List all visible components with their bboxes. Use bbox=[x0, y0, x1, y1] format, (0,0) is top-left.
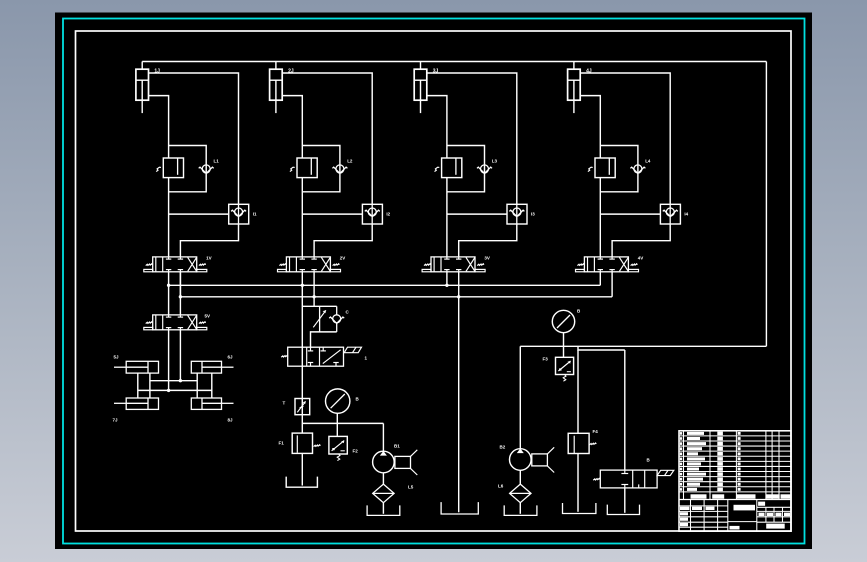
tank 5 bbox=[563, 503, 596, 514]
wire: branch main pressure line (col 2 continuation) bbox=[301, 285, 303, 433]
clamp cylinder 5J (top-left) bbox=[114, 361, 159, 373]
back-pressure valve F4 bbox=[568, 433, 596, 453]
wire: valve 3V port B to return bus bbox=[458, 272, 460, 297]
pilot relief valve F3 bbox=[556, 357, 574, 381]
wire: pump 1 outlet riser bbox=[382, 423, 384, 451]
wire: clamp manifold stem left-inner bbox=[149, 373, 151, 398]
wire: cylinder 4J cap port to top bus bbox=[573, 62, 575, 70]
clamp cylinder 6J (top-right) bbox=[191, 361, 233, 373]
wire: valve 4V port A to pressure bus bbox=[599, 272, 601, 286]
hydraulic cylinder 3J bbox=[414, 69, 427, 113]
wire: valve 1V port A to pressure bus bbox=[168, 272, 170, 286]
tank 4 bbox=[504, 505, 537, 515]
wire: gauge G2 stem bbox=[563, 333, 565, 358]
wire: top supply bus to all cylinder cap ends bbox=[142, 61, 766, 63]
svg-text:L4: L4 bbox=[645, 159, 651, 164]
pressure gauge G2 bbox=[552, 310, 574, 332]
wire: valve 2V port B to return bus bbox=[313, 272, 315, 297]
wire: pump 1 suction bbox=[382, 473, 384, 484]
wire: gauge G1 stem bbox=[336, 413, 338, 423]
wire: supply line A bbox=[520, 345, 766, 347]
manual directional valve 6V bbox=[281, 347, 361, 366]
svg-text:F4: F4 bbox=[593, 429, 599, 434]
wire: pump 1 manifold bbox=[302, 422, 383, 424]
pilot-operated check valve I3 bbox=[507, 204, 527, 224]
pressure gauge G1 bbox=[326, 389, 350, 413]
tank 1 bbox=[286, 477, 317, 488]
adjustable throttle valve 7L bbox=[295, 399, 310, 415]
wire: pilot line to check valve I2 bbox=[302, 213, 362, 215]
wire: clamp manifold rail 2 bbox=[138, 389, 212, 391]
wire: valve 2V port A to pressure bus bbox=[301, 272, 303, 286]
solenoid directional control valve 5V (clamp) bbox=[144, 315, 207, 330]
wire: throttle valve to directional valve port A bbox=[599, 178, 601, 257]
title block (parts list and drawing title) bbox=[679, 431, 791, 531]
suction filter L5 bbox=[373, 484, 394, 503]
wire: cylinder 3J cap side port to pilot-operated check valve bbox=[427, 73, 517, 204]
throttle (flow control) valve of unit 2 bbox=[290, 158, 317, 178]
wire: pilot line to check valve I4 bbox=[600, 213, 660, 215]
wire: throttle valve to directional valve port A bbox=[168, 178, 170, 257]
solenoid directional control valve 3V bbox=[422, 257, 485, 272]
check valve of one-way throttle L1 bbox=[199, 165, 214, 174]
svg-text:5V: 5V bbox=[205, 314, 211, 319]
solenoid directional control valve 2V bbox=[278, 257, 341, 272]
svg-text:I1: I1 bbox=[253, 212, 257, 217]
junction on bus P bbox=[445, 284, 448, 287]
svg-text:L5: L5 bbox=[408, 485, 414, 490]
wire: cylinder 4J cap side port to pilot-operated check valve bbox=[580, 73, 670, 204]
wire: filter to tank 2 bbox=[382, 503, 384, 514]
wire: check valve I1 outlet to valve port B bbox=[180, 224, 238, 257]
wire: line B down to back-pressure valve bbox=[577, 350, 579, 433]
wire: cylinder 1J cap side port to pilot-operated check valve bbox=[149, 73, 239, 204]
relief valve F1 bbox=[292, 433, 320, 453]
hydraulic cylinder 4J bbox=[568, 69, 581, 113]
hydraulic pump B1 bbox=[373, 451, 395, 473]
wire: cylinder 2J cap side port to pilot-operated check valve bbox=[282, 73, 372, 204]
wire: clamp manifold stem right-inner bbox=[196, 373, 198, 398]
pilot-operated check valve I1 bbox=[229, 204, 249, 224]
wire: valve 4V port B to return bus bbox=[611, 272, 613, 297]
check valve of one-way throttle L4 bbox=[630, 165, 645, 174]
wire: pump 2 suction bbox=[519, 470, 521, 484]
junction on bus T bbox=[179, 295, 182, 298]
tank 2 bbox=[367, 505, 400, 515]
svg-text:B2: B2 bbox=[500, 445, 506, 450]
wire: pilot line to check valve I1 bbox=[169, 213, 229, 215]
wire: return line T to tank 3 bbox=[458, 297, 460, 513]
manual directional valve 7V bbox=[593, 470, 674, 488]
throttle (flow control) valve of unit 1 bbox=[156, 158, 183, 178]
hydraulic pump B2 bbox=[510, 448, 532, 470]
svg-text:1V: 1V bbox=[206, 256, 212, 261]
wire: check valve I4 outlet to valve port B bbox=[612, 224, 670, 257]
check valve (combo) bbox=[329, 306, 344, 332]
svg-text:L1: L1 bbox=[214, 159, 220, 164]
wire: bus line T (lower) bbox=[180, 296, 612, 298]
white inner frame bbox=[76, 31, 792, 531]
wire: throttle valve to directional valve port A bbox=[301, 178, 303, 257]
junction rail 1 bbox=[179, 379, 182, 382]
svg-text:I2: I2 bbox=[386, 212, 390, 217]
svg-text:L2: L2 bbox=[347, 159, 353, 164]
cyan border frame bbox=[63, 19, 805, 544]
junction on bus P bbox=[301, 284, 304, 287]
svg-text:5J: 5J bbox=[114, 355, 120, 360]
wire: check valve I2 outlet to valve port B bbox=[314, 224, 372, 257]
wire: bypass loop around throttle L2 bbox=[302, 146, 340, 192]
pilot-operated check valve I4 bbox=[660, 204, 680, 224]
throttle (flow control) valve of unit 4 bbox=[588, 158, 615, 178]
wire: bypass loop around throttle L3 bbox=[447, 146, 485, 192]
wire: cylinder 2J rod port down to throttle valve bbox=[282, 96, 302, 158]
wire: bus T to one-way throttle combo bbox=[313, 297, 315, 307]
wire: cylinder 3J cap port to top bus bbox=[420, 62, 422, 70]
svg-text:F1: F1 bbox=[279, 441, 285, 446]
suction filter L6 bbox=[510, 484, 531, 503]
wire: clamp manifold stem left-outer bbox=[137, 373, 139, 398]
wire: bypass loop around throttle L1 bbox=[169, 146, 207, 192]
wire: combo bottom header to valve 6V bbox=[311, 332, 337, 347]
wire: check valve I3 outlet to valve port B bbox=[459, 224, 517, 257]
svg-text:2V: 2V bbox=[340, 256, 346, 261]
svg-text:8J: 8J bbox=[228, 418, 234, 423]
wire: valve 1V port B to return bus bbox=[179, 272, 181, 297]
svg-text:7J: 7J bbox=[113, 418, 119, 423]
wire: line B down to valve 7V bbox=[624, 350, 626, 470]
wire: cylinder 4J rod port down to throttle valve bbox=[580, 96, 600, 158]
hydraulic cylinder 2J bbox=[270, 69, 283, 113]
svg-text:6J: 6J bbox=[228, 355, 234, 360]
svg-text:F3: F3 bbox=[543, 357, 549, 362]
hydraulic cylinder 1J bbox=[136, 69, 149, 113]
svg-text:3V: 3V bbox=[484, 256, 490, 261]
wire: right-side riser from supply line to top bus bbox=[765, 62, 767, 347]
junction on bus T bbox=[312, 295, 315, 298]
svg-text:I4: I4 bbox=[684, 212, 688, 217]
wire: pump 2 outlet riser bbox=[519, 346, 521, 448]
junction rail 2 bbox=[167, 389, 170, 392]
wire: clamp manifold stem right-outer bbox=[211, 373, 213, 398]
solenoid directional control valve 4V bbox=[576, 257, 639, 272]
wire: valve 7V to tank 6 bbox=[624, 488, 626, 513]
svg-text:I3: I3 bbox=[531, 212, 535, 217]
wire: combo top header bbox=[302, 305, 336, 307]
check valve of one-way throttle L3 bbox=[477, 165, 492, 174]
electric motor M1 bbox=[395, 450, 417, 475]
svg-text:L6: L6 bbox=[498, 484, 504, 489]
wire: clamp manifold rail 1 bbox=[150, 380, 197, 382]
wire: bus T down to clamp valve 5V port B bbox=[179, 272, 181, 315]
wire: cylinder 2J cap port to top bus bbox=[275, 62, 277, 70]
wire: valve 3V port A to pressure bus bbox=[446, 272, 448, 286]
wire: relief valve F1 to tank 1 bbox=[301, 453, 303, 485]
tank 3 bbox=[441, 502, 478, 514]
wire: cylinder 1J cap port to top bus bbox=[141, 62, 143, 70]
svg-text:4V: 4V bbox=[638, 256, 644, 261]
wire: cylinder 3J rod port down to throttle valve bbox=[427, 96, 447, 158]
check valve of one-way throttle L2 bbox=[332, 165, 347, 174]
pilot-operated check valve I2 bbox=[362, 204, 382, 224]
adjustable throttle valve (combo) bbox=[313, 306, 326, 332]
throttle (flow control) valve of unit 3 bbox=[435, 158, 462, 178]
wire: bus line P (upper) bbox=[169, 284, 601, 286]
svg-text:T: T bbox=[283, 401, 286, 406]
electric motor M2 bbox=[532, 447, 554, 472]
wire: filter 2 to tank 4 bbox=[519, 503, 521, 514]
svg-text:B1: B1 bbox=[394, 444, 400, 449]
wire: line B header bbox=[578, 346, 625, 350]
wire: bus P down to clamp valve 5V port A bbox=[168, 285, 170, 315]
tank 6 bbox=[607, 505, 639, 515]
svg-text:F2: F2 bbox=[353, 449, 359, 454]
wire: clamp valve port A down to manifold rail 2 bbox=[168, 330, 170, 391]
wire: F4 to tank 5 bbox=[577, 454, 579, 512]
wire: cylinder 1J rod port down to throttle valve bbox=[149, 96, 169, 158]
junction on bus T bbox=[457, 295, 460, 298]
solenoid directional control valve 1V bbox=[144, 257, 207, 272]
wire: bypass loop around throttle L4 bbox=[600, 146, 638, 192]
wire: throttle valve to directional valve port A bbox=[446, 178, 448, 257]
clamp cylinder 8J (bottom-right) bbox=[191, 398, 233, 409]
junction on bus P bbox=[167, 284, 170, 287]
clamp cylinder 7J (bottom-left) bbox=[114, 398, 159, 409]
wire: pilot line to check valve I3 bbox=[447, 213, 507, 215]
pilot relief valve F2 bbox=[329, 436, 347, 460]
svg-text:L3: L3 bbox=[492, 159, 498, 164]
wire: clamp valve port B down to manifold rail 1 bbox=[179, 330, 181, 381]
wire: F2 stem bbox=[336, 423, 338, 436]
